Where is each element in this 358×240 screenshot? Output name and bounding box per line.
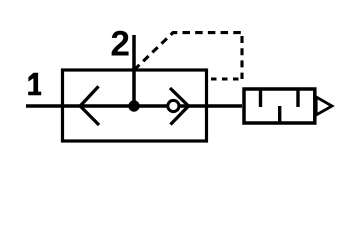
svg-text:2: 2 xyxy=(110,25,130,64)
